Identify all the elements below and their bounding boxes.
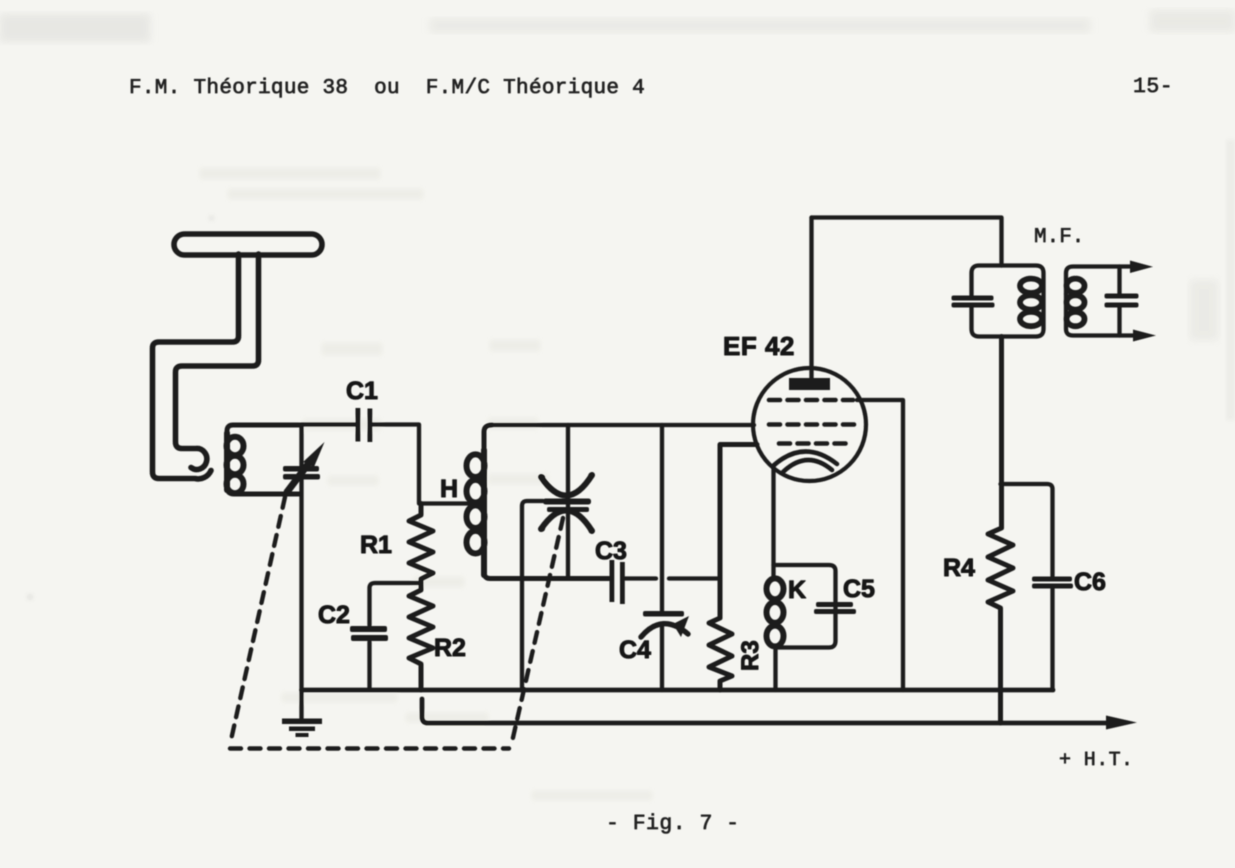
svg-text:C3: C3 <box>595 537 627 565</box>
ground symbol <box>282 690 322 737</box>
resistor R3 (with wire up to screen grid) <box>709 445 757 691</box>
svg-text:R1: R1 <box>360 531 392 559</box>
H.T. bus with arrow <box>422 699 1137 730</box>
svg-text:C6: C6 <box>1074 568 1106 596</box>
svg-text:EF 42: EF 42 <box>723 331 795 361</box>
faint bleed-through marks (decorative) <box>28 168 652 800</box>
wire: tank1 top to C1 <box>302 422 357 426</box>
wire: cathode lead <box>771 466 775 577</box>
svg-text:R4: R4 <box>943 554 975 582</box>
svg-text:C2: C2 <box>318 601 350 629</box>
M.F. transformer primary tank <box>952 266 1044 337</box>
resistor R1 <box>409 504 433 584</box>
tube EF42 <box>753 218 866 482</box>
dashed gang line (CV2 to bus) <box>512 518 563 742</box>
svg-text:+ H.T.: + H.T. <box>1059 749 1133 772</box>
svg-text:C5: C5 <box>843 575 875 603</box>
ground bus <box>302 688 1054 693</box>
svg-text:- Fig. 7 -: - Fig. 7 - <box>606 812 740 836</box>
wire: C3 right segment <box>625 576 656 580</box>
svg-text:H: H <box>440 475 458 503</box>
resistor R2 <box>409 583 433 690</box>
antenna (folded dipole) <box>153 234 323 479</box>
svg-text:C1: C1 <box>346 377 378 405</box>
variable capacitor CV2 (oscillator tuning) <box>539 425 595 578</box>
capacitor C6 <box>1001 484 1074 690</box>
svg-text:K: K <box>788 576 806 604</box>
wire: C1 right to vertical x419 <box>371 425 469 504</box>
coil L1 (antenna secondary) <box>227 425 302 494</box>
wire: screen grid to ground bus <box>857 400 903 690</box>
wire: CV2 top plate to ground bus <box>522 501 543 690</box>
wire: anode top rail to M.F. <box>812 218 1002 266</box>
dashed gang line (CV1 to bus) <box>231 497 285 740</box>
coil H (tank 2) <box>484 425 609 579</box>
capacitor C2 <box>350 583 421 690</box>
variable capacitor CV1 (with arrow) <box>283 425 325 690</box>
variable capacitor C4 <box>641 425 689 690</box>
scan smudge top band (decorative) <box>0 10 1235 420</box>
wire: grid rail (tank2 top to tube) <box>490 423 754 427</box>
capacitor C5 <box>814 602 856 614</box>
dashed gang bus <box>230 746 509 750</box>
svg-text:C4: C4 <box>619 636 651 664</box>
svg-text:R2: R2 <box>434 634 466 662</box>
wire: to R3 junction <box>669 576 719 580</box>
svg-text:F.M. Théorique 38 ou F.M/C T: F.M. Théorique 38 ou F.M/C Théorique 4 <box>129 77 645 100</box>
coil K tank <box>774 565 836 690</box>
svg-text:15-: 15- <box>1133 75 1173 99</box>
M.F. transformer secondary <box>1066 261 1156 342</box>
capacitor C3 <box>610 560 625 604</box>
svg-text:M.F.: M.F. <box>1034 226 1084 249</box>
capacitor C1 <box>356 408 373 442</box>
resistor R4 <box>988 337 1013 724</box>
svg-text:R3: R3 <box>737 640 764 671</box>
